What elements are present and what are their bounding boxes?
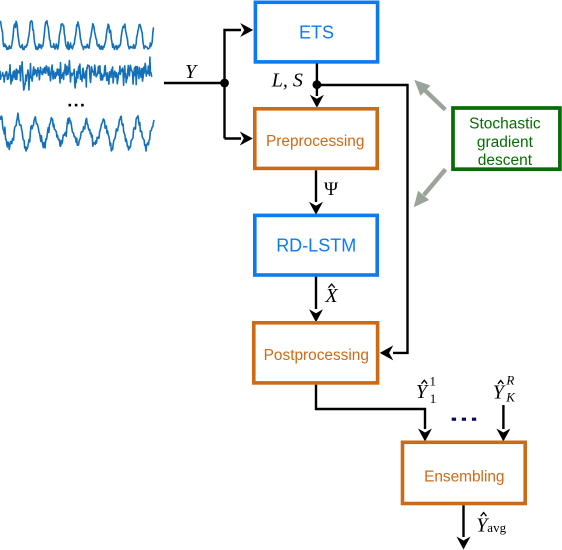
box RD-LSTM (255, 215, 377, 275)
svg-text:K: K (505, 390, 516, 405)
wire second ensemble input (502, 405, 504, 429)
ellipsis dots between series (69, 104, 84, 107)
box Preprocessing (255, 109, 377, 169)
svg-text:1: 1 (430, 391, 437, 406)
wire Ensembling output (462, 505, 464, 537)
time series plot 1 (0, 21, 154, 50)
arrow into Postprocessing right (380, 345, 394, 360)
wire feedback loop right (317, 85, 408, 353)
arrow output (457, 537, 471, 550)
arrow into Ensembling top left (418, 429, 432, 442)
svg-text:Postprocessing: Postprocessing (264, 347, 369, 364)
gray arrow lower (424, 169, 446, 195)
wire RD-LSTM to Postprocessing (315, 277, 317, 309)
box Ensembling (403, 442, 526, 503)
svg-text:avg: avg (487, 520, 506, 535)
node Y junction (220, 79, 229, 88)
svg-text:Preprocessing: Preprocessing (266, 133, 364, 150)
svg-text:R: R (505, 373, 514, 388)
svg-text:Y: Y (493, 382, 506, 404)
svg-text:Ensembling: Ensembling (424, 469, 504, 486)
time series plot 3 (0, 113, 154, 151)
arrow into Preprocessing top (310, 95, 324, 108)
svg-text:1: 1 (430, 374, 437, 389)
svg-text:Stochastic: Stochastic (469, 115, 541, 132)
svg-text:RD-LSTM: RD-LSTM (276, 236, 356, 256)
svg-text:ETS: ETS (299, 23, 334, 43)
svg-text:Y: Y (416, 381, 429, 403)
arrow into Preprocessing left (225, 137, 242, 139)
svg-text:Y: Y (185, 61, 198, 83)
wire split to ETS (225, 30, 242, 139)
svg-text:L, S: L, S (271, 70, 303, 92)
ellipsis dots blue-black (452, 418, 476, 421)
gray arrow upper (424, 89, 445, 109)
arrow into Postprocessing top (309, 309, 323, 322)
wire Preprocessing to RD-LSTM (315, 170, 317, 202)
wire Y input (164, 82, 225, 84)
svg-text:descent: descent (478, 152, 533, 169)
svg-text:gradient: gradient (477, 134, 534, 151)
time series plot 2 (0, 57, 152, 90)
wire ETS bottom to L,S node (316, 64, 318, 97)
node L,S junction (313, 80, 322, 89)
arrow into RD-LSTM top (309, 202, 323, 215)
arrow into ETS (240, 23, 253, 37)
box Postprocessing (254, 323, 378, 383)
box ETS (255, 2, 377, 62)
svg-text:Ψ: Ψ (324, 179, 338, 200)
svg-text:X: X (324, 285, 338, 307)
wire Postprocessing to Ensembling (316, 385, 425, 429)
box SGD (453, 108, 560, 169)
arrow into Ensembling top right (496, 429, 510, 442)
